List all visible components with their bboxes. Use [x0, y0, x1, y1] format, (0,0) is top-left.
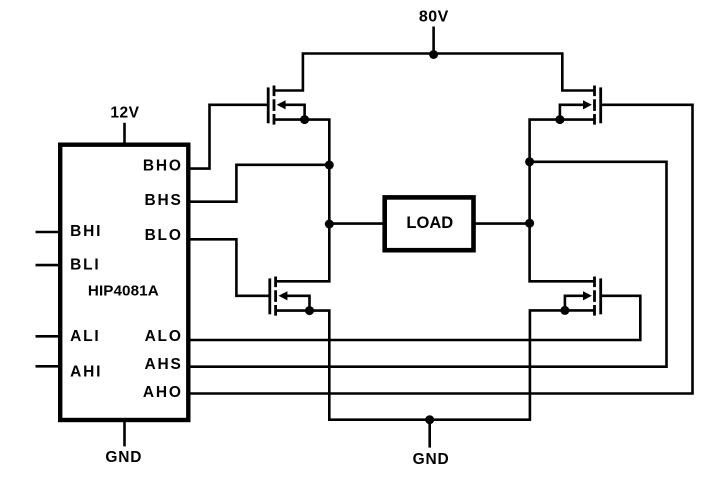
svg-text:80V: 80V [419, 8, 449, 25]
svg-text:LOAD: LOAD [406, 214, 453, 232]
svg-text:BHS: BHS [145, 192, 183, 209]
svg-text:ALO: ALO [145, 328, 183, 345]
svg-text:AHS: AHS [145, 356, 183, 373]
svg-text:GND: GND [105, 449, 142, 466]
svg-text:AHI: AHI [70, 364, 102, 381]
svg-text:BHI: BHI [70, 223, 102, 240]
svg-text:BHO: BHO [143, 157, 183, 174]
svg-text:HIP4081A: HIP4081A [88, 283, 159, 300]
svg-text:ALI: ALI [70, 328, 100, 345]
svg-text:BLO: BLO [145, 227, 183, 244]
svg-text:12V: 12V [110, 104, 139, 121]
svg-text:GND: GND [413, 451, 450, 468]
svg-text:AHO: AHO [143, 384, 183, 401]
svg-text:BLI: BLI [70, 256, 100, 273]
